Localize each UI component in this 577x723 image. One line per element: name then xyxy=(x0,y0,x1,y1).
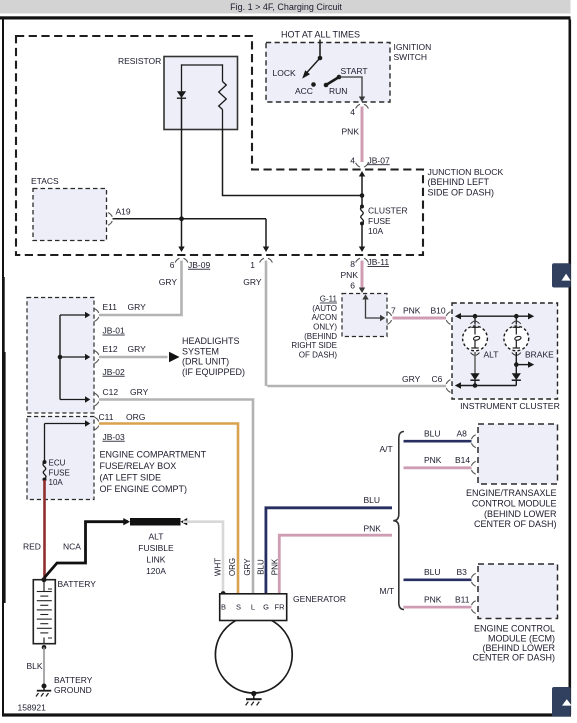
node lamp ALT feed xyxy=(473,314,478,319)
contact RUN xyxy=(324,83,329,88)
svg-text:A/CON: A/CON xyxy=(312,313,338,322)
svg-text:JB-02: JB-02 xyxy=(103,367,125,377)
svg-text:START: START xyxy=(341,66,368,76)
svg-text:GRY: GRY xyxy=(159,277,178,287)
connector JB-07 xyxy=(356,155,390,167)
svg-text:SWITCH: SWITCH xyxy=(394,52,428,62)
svg-text:M/T: M/T xyxy=(380,586,395,596)
wire from hot feed to ignition switch xyxy=(319,40,321,59)
svg-text:ORG: ORG xyxy=(228,558,237,576)
svg-text:RED: RED xyxy=(23,542,41,552)
svg-text:RESISTOR: RESISTOR xyxy=(118,56,161,66)
svg-text:FUSIBLE: FUSIBLE xyxy=(138,543,174,553)
svg-text:BATTERY: BATTERY xyxy=(58,579,97,589)
svg-text:ALT: ALT xyxy=(484,350,499,360)
svg-text:RIGHT SIDE: RIGHT SIDE xyxy=(291,341,337,350)
junction block connector box (E11/E12/C12) xyxy=(27,298,94,414)
svg-text:BLU: BLU xyxy=(364,495,381,505)
wire RED fuse to battery xyxy=(43,480,46,578)
wire ORG C11 to generator S xyxy=(99,424,238,594)
generator terminal box xyxy=(220,594,287,621)
ignition switch common node xyxy=(318,56,323,61)
engine compartment fuse/relay box label xyxy=(100,450,207,495)
svg-text:C12: C12 xyxy=(103,387,119,397)
connector B11 arcs xyxy=(472,601,476,614)
wire brake branch right xyxy=(516,361,534,367)
svg-text:10A: 10A xyxy=(368,226,383,236)
wire WHT fusible link to generator B xyxy=(183,522,223,594)
svg-text:B10: B10 xyxy=(431,306,446,316)
node diode ALT to bus xyxy=(473,383,478,388)
svg-text:GRY: GRY xyxy=(130,387,149,397)
svg-text:ENGINE COMPARTMENT: ENGINE COMPARTMENT xyxy=(100,450,207,460)
wire inside resistor box xyxy=(182,64,223,66)
svg-text:CENTER OF DASH): CENTER OF DASH) xyxy=(472,653,555,663)
wire BLK battery to ground xyxy=(43,647,45,684)
fusible link label xyxy=(138,532,174,576)
wire PNK to B14 xyxy=(404,466,472,469)
connector B14 arcs xyxy=(472,461,476,474)
cluster bottom bus wire xyxy=(455,382,517,388)
svg-text:(BEHIND: (BEHIND xyxy=(304,332,337,341)
svg-text:158921: 158921 xyxy=(18,703,47,713)
fuse ECU FUSE 10A xyxy=(43,460,47,482)
svg-text:6: 6 xyxy=(350,281,355,291)
wire down to terminal 1 (arrow) xyxy=(263,219,269,252)
svg-text:ALT: ALT xyxy=(149,532,164,542)
wire GRY terminal 6 to E11 xyxy=(99,261,182,316)
wire PNK generator FR to modules xyxy=(279,535,392,593)
svg-text:GRY: GRY xyxy=(402,374,421,384)
wire A19 to junction block xyxy=(113,218,267,220)
svg-text:(AUTO: (AUTO xyxy=(312,304,337,313)
svg-text:(BEHIND LOWER: (BEHIND LOWER xyxy=(482,643,555,653)
svg-text:GENERATOR: GENERATOR xyxy=(293,594,346,604)
svg-text:OF ENGINE COMPT): OF ENGINE COMPT) xyxy=(100,484,188,494)
svg-text:BLK: BLK xyxy=(27,661,43,671)
svg-text:E12: E12 xyxy=(103,344,118,354)
svg-text:(BEHIND LOWER: (BEHIND LOWER xyxy=(484,509,557,519)
svg-text:ONLY): ONLY) xyxy=(313,323,337,332)
bus bar inside connector box xyxy=(59,315,61,400)
svg-text:ENGINE CONTROL: ENGINE CONTROL xyxy=(474,624,555,634)
svg-text:JUNCTION BLOCK: JUNCTION BLOCK xyxy=(428,167,504,177)
svg-text:(AT LEFT SIDE: (AT LEFT SIDE xyxy=(100,473,162,483)
svg-text:7: 7 xyxy=(391,306,396,316)
node battery positive xyxy=(42,577,47,582)
battery ground label xyxy=(54,675,93,695)
svg-text:SYSTEM: SYSTEM xyxy=(182,346,219,356)
wire node to fuse xyxy=(361,196,363,207)
svg-text:(IF EQUIPPED): (IF EQUIPPED) xyxy=(182,367,245,377)
svg-text:GROUND: GROUND xyxy=(54,685,92,695)
svg-text:JB-07: JB-07 xyxy=(368,155,390,165)
wire lamp BRAKE down xyxy=(515,352,517,374)
svg-text:BLU: BLU xyxy=(424,428,441,438)
svg-text:JB-03: JB-03 xyxy=(103,432,125,442)
wire fuse to JB-11 (arrow down) xyxy=(359,224,365,253)
connector G-11 box xyxy=(342,294,387,337)
wire BLU to A8 xyxy=(404,440,472,443)
svg-text:RUN: RUN xyxy=(329,86,347,96)
wire BLU generator G to modules xyxy=(266,508,392,594)
svg-text:Fig. 1 > 4F, Charging Circuit: Fig. 1 > 4F, Charging Circuit xyxy=(230,2,342,12)
svg-text:G: G xyxy=(263,602,269,611)
svg-text:PNK: PNK xyxy=(424,455,442,465)
engine/transaxle control module box xyxy=(478,424,558,484)
svg-text:A8: A8 xyxy=(457,428,468,438)
svg-text:INSTRUMENT CLUSTER: INSTRUMENT CLUSTER xyxy=(460,401,560,411)
svg-text:120A: 120A xyxy=(146,566,166,576)
junction node above cluster fuse xyxy=(360,193,365,198)
wire down to terminal 6 (arrow) xyxy=(178,219,184,252)
wire C11 branch down to ECU fuse xyxy=(44,424,46,463)
ignition switch box xyxy=(266,43,390,103)
node bus to E12 xyxy=(58,355,63,360)
switch arm RUN-START xyxy=(326,77,339,85)
connector A8 arcs xyxy=(472,435,476,448)
cluster top bus wire xyxy=(455,313,534,319)
instrument cluster box xyxy=(452,303,558,399)
fusible link ALT 120A xyxy=(123,518,187,526)
svg-text:MODULE (ECM): MODULE (ECM) xyxy=(488,633,555,643)
connector terminal 4 (ignition side) xyxy=(350,104,368,117)
contact START xyxy=(337,75,342,80)
figure title bar xyxy=(0,0,571,14)
svg-text:PNK: PNK xyxy=(424,594,442,604)
connector B10 arcs xyxy=(446,312,450,325)
resistor box xyxy=(164,57,238,130)
resistor R1 xyxy=(219,64,227,130)
svg-text:G-11: G-11 xyxy=(320,295,338,304)
wire inside G-11 xyxy=(362,294,385,321)
svg-text:OF DASH): OF DASH) xyxy=(299,350,338,359)
wire NCA battery to fusible link xyxy=(45,522,129,578)
svg-text:FUSE: FUSE xyxy=(368,216,391,226)
wire bus to E12 (arrow) xyxy=(60,351,99,364)
svg-text:FUSE: FUSE xyxy=(49,468,70,477)
svg-text:CENTER OF DASH): CENTER OF DASH) xyxy=(474,519,557,529)
svg-text:WHT: WHT xyxy=(214,558,223,576)
wire bus to C12 (arrow) xyxy=(60,393,99,406)
svg-text:C6: C6 xyxy=(432,374,443,384)
svg-text:A/T: A/T xyxy=(380,444,393,454)
svg-text:LINK: LINK xyxy=(147,554,166,564)
connector B3 arcs xyxy=(472,573,476,586)
lamp BRAKE xyxy=(504,316,529,355)
svg-text:PNK: PNK xyxy=(364,523,382,533)
svg-text:S: S xyxy=(236,602,241,611)
wire diode to A19 junction xyxy=(181,98,183,219)
svg-text:FUSE/RELAY BOX: FUSE/RELAY BOX xyxy=(100,461,177,471)
connector JB-09 terminal 6 xyxy=(170,258,211,270)
headlights system arrow xyxy=(169,352,180,362)
connector G-11 label xyxy=(291,295,337,360)
svg-text:GRY: GRY xyxy=(243,277,262,287)
svg-text:B11: B11 xyxy=(455,594,470,604)
ignition switch label xyxy=(394,42,432,62)
node brake branch xyxy=(514,362,519,367)
svg-text:HEADLIGHTS: HEADLIGHTS xyxy=(182,336,240,346)
wire lamp ALT to diode xyxy=(474,352,476,374)
svg-text:HOT AT ALL TIMES: HOT AT ALL TIMES xyxy=(281,30,360,40)
generator ground xyxy=(246,691,262,706)
lamp ALT xyxy=(463,316,488,355)
wire PNK ignition to JB-07 xyxy=(361,107,364,163)
diode (BRAKE lamp) xyxy=(512,373,521,385)
junction block label xyxy=(428,167,504,198)
cluster fuse label xyxy=(368,206,408,236)
svg-text:(BEHIND LEFT: (BEHIND LEFT xyxy=(428,177,490,187)
contact ACC xyxy=(311,82,316,87)
svg-text:ECU: ECU xyxy=(49,459,66,468)
svg-text:GRY: GRY xyxy=(128,344,147,354)
svg-text:JB-11: JB-11 xyxy=(368,257,390,267)
battery ground xyxy=(36,684,51,697)
wire inside fuse box to C11 (arrow) xyxy=(45,417,99,430)
node battery negative xyxy=(42,645,47,650)
svg-text:ORG: ORG xyxy=(126,412,145,422)
connector terminal 1 xyxy=(250,258,272,270)
svg-text:FR: FR xyxy=(275,602,286,611)
scroll button upper xyxy=(552,263,571,287)
engine control module label xyxy=(472,624,555,663)
wire resistor to cluster fuse node xyxy=(223,130,362,196)
wire START to terminal 4 xyxy=(339,77,365,102)
wire PNK G-11 to cluster xyxy=(393,317,447,320)
node A19/resistor junction xyxy=(179,216,184,221)
arrow into G-11 xyxy=(359,288,365,294)
wire PNK to B11 xyxy=(404,606,472,609)
svg-text:(DRL UNIT): (DRL UNIT) xyxy=(182,356,229,366)
svg-text:PNK: PNK xyxy=(271,558,280,575)
ETACS box xyxy=(33,189,107,241)
node generator B xyxy=(221,591,226,596)
svg-text:L: L xyxy=(251,602,255,611)
wire GRY terminal 1 to cluster xyxy=(265,261,268,387)
svg-text:4: 4 xyxy=(350,155,355,165)
svg-text:B14: B14 xyxy=(455,455,470,465)
svg-text:BLU: BLU xyxy=(257,559,266,575)
svg-text:NCA: NCA xyxy=(63,542,81,552)
connector JB-11 xyxy=(350,257,389,269)
junction block outline xyxy=(16,36,423,255)
svg-text:IGNITION: IGNITION xyxy=(394,42,432,52)
engine compartment fuse/relay box xyxy=(27,417,94,500)
svg-text:E11: E11 xyxy=(103,302,118,312)
svg-text:1: 1 xyxy=(250,260,255,270)
svg-text:4: 4 xyxy=(350,107,355,117)
wire bus to E11 (arrow) xyxy=(60,309,99,322)
generator body xyxy=(215,616,292,693)
node lamp BRAKE feed xyxy=(514,314,519,319)
svg-text:8: 8 xyxy=(350,259,355,269)
scroll button lower xyxy=(552,687,572,717)
svg-text:CONTROL MODULE: CONTROL MODULE xyxy=(472,499,557,509)
svg-text:PNK: PNK xyxy=(403,306,421,316)
wire GRY to cluster C6 xyxy=(267,385,446,388)
svg-text:BLU: BLU xyxy=(424,567,441,577)
connector exit G-11 xyxy=(387,312,391,325)
svg-text:JB-09: JB-09 xyxy=(188,260,210,270)
svg-text:PNK: PNK xyxy=(342,127,360,137)
engine/transaxle control module label xyxy=(466,488,557,529)
svg-text:BRAKE: BRAKE xyxy=(525,350,554,360)
wire BLU to B3 xyxy=(404,578,472,581)
svg-text:BATTERY: BATTERY xyxy=(54,675,93,685)
svg-text:JB-01: JB-01 xyxy=(103,326,125,336)
svg-text:ETACS: ETACS xyxy=(31,176,59,186)
connector A19 xyxy=(108,207,131,226)
svg-text:6: 6 xyxy=(170,260,175,270)
svg-text:B: B xyxy=(221,602,226,611)
wire GRY E12 to headlights xyxy=(99,356,168,359)
svg-text:ENGINE/TRANSAXLE: ENGINE/TRANSAXLE xyxy=(466,488,557,498)
diode D1 xyxy=(177,64,186,98)
brace A/T-M/T split xyxy=(393,432,404,610)
wire GRY C12 to generator L xyxy=(99,400,253,594)
svg-text:CLUSTER: CLUSTER xyxy=(368,206,408,216)
svg-text:B3: B3 xyxy=(457,567,468,577)
svg-text:SIDE OF DASH): SIDE OF DASH) xyxy=(428,188,495,198)
switch arm to LOCK xyxy=(302,58,320,79)
battery xyxy=(33,580,55,644)
wire PNK JB-11 to G-11 xyxy=(361,261,364,288)
headlights system label xyxy=(182,336,245,377)
svg-text:GRY: GRY xyxy=(128,302,147,312)
svg-text:ACC: ACC xyxy=(295,86,313,96)
ECU fuse label xyxy=(49,459,70,488)
wire JB-07 into junction block (arrow up) xyxy=(359,171,365,196)
svg-text:GRY: GRY xyxy=(243,558,252,576)
svg-text:A19: A19 xyxy=(116,207,131,217)
svg-text:LOCK: LOCK xyxy=(273,68,296,78)
svg-text:PNK: PNK xyxy=(341,270,359,280)
diode (ALT lamp) xyxy=(470,373,479,385)
cluster fuse xyxy=(360,205,364,226)
connector C6 arcs xyxy=(446,380,450,393)
svg-text:C11: C11 xyxy=(99,412,114,422)
svg-text:10A: 10A xyxy=(49,478,64,487)
engine control module (ECM) box xyxy=(478,564,558,619)
